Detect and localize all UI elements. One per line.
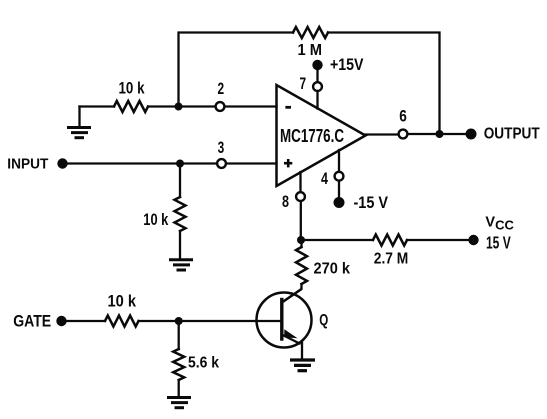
svg-text:OUTPUT: OUTPUT: [484, 126, 540, 143]
transistor Q1 circle: [257, 293, 312, 348]
svg-text:2: 2: [218, 79, 225, 98]
node J3 vcc junction: [297, 236, 305, 244]
svg-text:GATE: GATE: [13, 313, 51, 331]
svg-text:1 M: 1 M: [298, 42, 323, 59]
wire ground stub left: [78, 107, 80, 127]
node J2 pin3 junction: [176, 160, 184, 168]
resistor R 10k gate: [105, 316, 139, 327]
wire top feedback right segment: [328, 33, 440, 135]
pin 3 circle: [217, 159, 226, 168]
svg-text:10 k: 10 k: [143, 210, 168, 229]
svg-text:5.6 k: 5.6 k: [188, 355, 219, 372]
ground G4 (under 5.6k): [167, 398, 191, 408]
transistor Q1 emitter arrowhead: [284, 329, 297, 338]
ground G2 (under shunt 10k): [169, 260, 193, 270]
wire resistor to pin2 node: [148, 105, 216, 107]
wire pin3 circle to op-amp: [226, 162, 277, 164]
wire pin6 output: [366, 133, 399, 135]
svg-text:-15 V: -15 V: [354, 193, 389, 212]
wire gate line to base: [66, 320, 105, 322]
wire emitter down to ground: [301, 342, 303, 359]
terminal VCC dot: [468, 235, 478, 245]
svg-text:3: 3: [218, 138, 225, 157]
wire pin7 circle to +15V dot: [316, 70, 318, 82]
resistor R 2.7M: [373, 235, 407, 246]
wire VCC node to 2.7M: [301, 239, 373, 241]
op-amp U1 triangle: [277, 85, 366, 186]
svg-text:4: 4: [321, 169, 328, 188]
wire 10k to base node: [139, 320, 282, 322]
resistor R 270k: [296, 247, 307, 284]
wire 5.6k to ground: [178, 380, 180, 397]
ground G3 (emitter): [290, 360, 315, 371]
wire top feedback left segment: [179, 33, 294, 107]
node J5 gate junction: [175, 317, 183, 325]
terminal INPUT dot: [57, 158, 67, 168]
wire pin7 stub: [316, 91, 318, 109]
svg-text:7: 7: [300, 74, 307, 93]
resistor R 5.6k: [173, 349, 184, 380]
transistor Q1 collector diagonal: [282, 289, 302, 303]
ground G1 (left, under 10k): [67, 128, 91, 138]
wire pin2 line ground-to-resistor: [80, 105, 115, 107]
svg-text:+15V: +15V: [330, 55, 364, 74]
wire pin8 stub: [299, 172, 301, 192]
pin 8 circle: [296, 192, 305, 201]
resistor R 10k shunt to ground: [175, 197, 186, 231]
wire VCC node to 270k: [300, 240, 302, 247]
wire pin8 circle down to VCC node: [300, 201, 302, 240]
wire 270k to collector: [282, 284, 302, 303]
node J1 pin2 junction: [175, 103, 183, 111]
resistor R 1M zigzag: [293, 27, 328, 38]
transistor Q1 emitter: [282, 335, 300, 344]
wire junction to OUTPUT dot: [440, 133, 467, 135]
resistor R 10k inverting input: [114, 101, 148, 112]
svg-text:2.7 M: 2.7 M: [374, 251, 409, 268]
terminal +15V dot: [312, 60, 322, 70]
op-amp plus sign: [284, 159, 292, 167]
wire pin4 stub: [338, 150, 340, 172]
svg-text:270 k: 270 k: [314, 261, 351, 278]
svg-text:10 k: 10 k: [119, 79, 145, 98]
wire pin2 circle to op-amp: [225, 105, 277, 107]
svg-text:10 k: 10 k: [108, 292, 137, 311]
svg-text:6: 6: [399, 107, 407, 126]
terminal GATE dot: [56, 316, 66, 326]
wire R shunt to ground: [179, 231, 181, 259]
wire node J2 down to R shunt: [179, 164, 181, 198]
pin 2 circle: [216, 102, 225, 111]
wire input line: [67, 162, 217, 164]
svg-text:INPUT: INPUT: [7, 156, 48, 173]
wire 2.7M to VCC dot: [407, 239, 469, 241]
svg-text:Q: Q: [319, 312, 328, 329]
svg-text:8: 8: [282, 192, 289, 211]
svg-text:15 V: 15 V: [486, 233, 511, 253]
op-amp minus sign: [285, 106, 291, 109]
pin 6 circle: [399, 130, 408, 139]
pin 7 circle: [313, 82, 322, 91]
svg-text:VCC: VCC: [485, 215, 514, 233]
transistor Q1 base bar: [280, 300, 283, 340]
svg-text:MC1776.C: MC1776.C: [280, 126, 344, 146]
terminal -15V dot: [334, 197, 345, 208]
pin 4 circle: [335, 172, 344, 181]
terminal OUTPUT dot: [466, 129, 477, 140]
wire pin6 circle to junction: [408, 133, 440, 135]
wire pin4 circle to -15V dot: [338, 181, 340, 198]
node J4 output junction: [436, 130, 444, 138]
wire gate node down to 5.6k: [178, 321, 180, 349]
